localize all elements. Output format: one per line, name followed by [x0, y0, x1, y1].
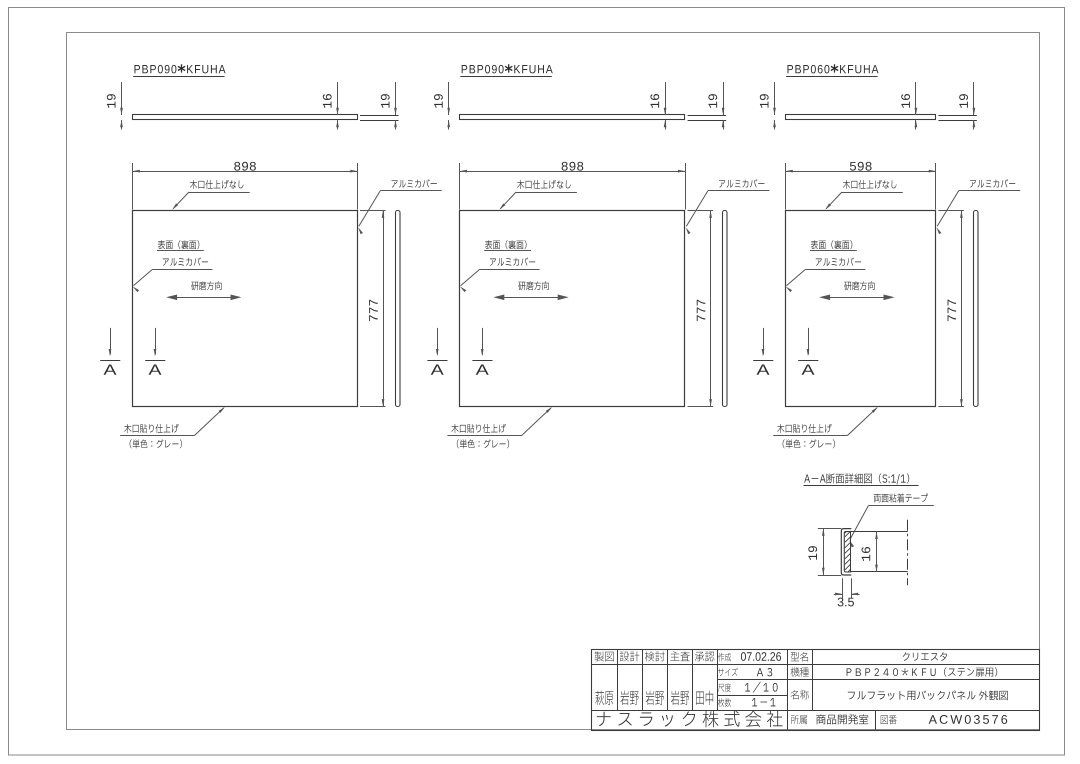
view 2 top view: aluminium cover strip [688, 115, 727, 117]
view 1 dimension 19 (right, cover height) [395, 82, 397, 115]
value フルフラット用バックパネル 外観図 [848, 690, 1008, 700]
view 3 top view: aluminium cover strip [938, 115, 977, 117]
view 1 label 表面（裏面） (front/back surface) [158, 240, 200, 249]
section detail title A－A断面詳細図（S:1/1） [804, 473, 909, 484]
value PBP240*KFU（ステン扉用） [847, 667, 998, 676]
section dimension 16 (panel thickness) [876, 532, 878, 572]
view 2 label 研磨方向 (polishing direction) with double arrow [518, 281, 548, 290]
view 1 title PBP090*KFUHA [134, 65, 176, 74]
view 2 front view: panel outline [460, 211, 685, 407]
view 2 dimension 19 (left, panel+cover thickness) [448, 82, 450, 115]
approval stamps [595, 691, 613, 705]
view 1 leader label アルミカバー (aluminium cover, left edge) [163, 257, 208, 265]
leader label 両面粘着テープ (double sided adhesive tape) [874, 493, 928, 502]
view 2 leader label アルミカバー (aluminium cover, right) [719, 179, 764, 187]
view 1 section mark A [155, 328, 157, 355]
view 1 top view: aluminium cover strip [360, 115, 399, 117]
cell 作成 07.02.26 [718, 653, 731, 662]
section dimension 3.5 (cover width) [842, 578, 844, 598]
view 1 label 研磨方向 (polishing direction) with double arrow [191, 281, 221, 290]
title block frame [592, 650, 1040, 731]
view 2 leader label アルミカバー (aluminium cover, left edge) [490, 257, 535, 265]
view 1 section mark A [110, 328, 112, 355]
aluminium cover section profile (C channel) [841, 529, 851, 575]
view 3 leader label アルミカバー (aluminium cover, left edge) [816, 257, 861, 265]
view 2 dimension 16 (panel thickness) [665, 82, 667, 115]
view 3 dimension 19 (right, cover height) [973, 82, 975, 115]
view 3 top view: panel bar [786, 115, 936, 120]
view 3 dimension 777 (panel height) [938, 210, 964, 212]
labels 型名/機種/名称 [791, 652, 808, 662]
tape hatch [845, 531, 851, 537]
view 2 leader label 木口仕上げなし (top edge no finish) [517, 180, 571, 189]
view 1 front view: panel outline [133, 211, 358, 407]
view 3 label 研磨方向 (polishing direction) with double arrow [844, 281, 874, 290]
view 3 dimension 598 (panel width) [785, 163, 787, 210]
view 3 section mark A [763, 328, 765, 355]
view 3 leader label 木口仕上げなし (top edge no finish) [843, 180, 897, 189]
view 3 dimension 19 (left, panel+cover thickness) [774, 82, 776, 115]
view 3 leader label 木口貼り仕上げ（単色：グレー） (bottom edge finish) [777, 424, 831, 433]
view 2 section mark A [482, 328, 484, 355]
view 1 top view: panel bar [133, 115, 358, 120]
view 2 dimension 19 (right, cover height) [723, 82, 725, 115]
section dimension 19 (cover height) [818, 528, 842, 530]
view 3 dimension 16 (panel thickness) [915, 82, 917, 115]
view 2 dimension 898 (panel width) [459, 163, 461, 210]
view 1 leader label アルミカバー (aluminium cover, right) [391, 179, 436, 187]
panel section lines [851, 531, 908, 533]
view 1 dimension 898 (panel width) [132, 163, 134, 210]
view 3 leader label アルミカバー (aluminium cover, right) [970, 179, 1015, 187]
view 1 dimension 16 (panel thickness) [337, 82, 339, 115]
cell 所属 商品開発室 [791, 715, 807, 724]
view 1 leader label 木口貼り仕上げ（単色：グレー） (bottom edge finish) [124, 424, 178, 433]
company name ナスラック株式会社 [597, 711, 783, 727]
cell 枚数 1-1 [718, 698, 731, 707]
view 2 section mark A [437, 328, 439, 355]
view 2 side view: aluminium cover bar [723, 211, 728, 407]
tape right edge / panel end [850, 532, 852, 572]
view 2 label 表面（裏面） (front/back surface) [485, 240, 527, 249]
view 2 top view: panel bar [460, 115, 685, 120]
cell 尺度 1/10 [718, 683, 731, 692]
view 2 title PBP090*KFUHA [462, 65, 504, 74]
view 1 side view: aluminium cover bar [396, 211, 401, 407]
view 2 dimension 777 (panel height) [688, 210, 714, 212]
view 2 leader label 木口貼り仕上げ（単色：グレー） (bottom edge finish) [451, 424, 505, 433]
view 3 label 表面（裏面） (front/back surface) [811, 240, 853, 249]
view 3 side view: aluminium cover bar [974, 211, 979, 407]
view 1 dimension 777 (panel height) [360, 210, 386, 212]
view 3 title PBP060*KFUHA [787, 65, 829, 74]
view 1 leader label 木口仕上げなし (top edge no finish) [190, 180, 244, 189]
view 1 dimension 19 (left, panel+cover thickness) [121, 82, 123, 115]
title block header labels [595, 651, 614, 661]
view 3 front view: panel outline [786, 211, 936, 407]
cell サイズ A3 [718, 668, 738, 676]
title block grid lines [617, 649, 619, 711]
cell 図番 ACW03576 [881, 715, 897, 724]
value クリエスタ [903, 652, 947, 661]
break centerline (dash-dot) [907, 520, 909, 585]
view 3 section mark A [808, 328, 810, 355]
